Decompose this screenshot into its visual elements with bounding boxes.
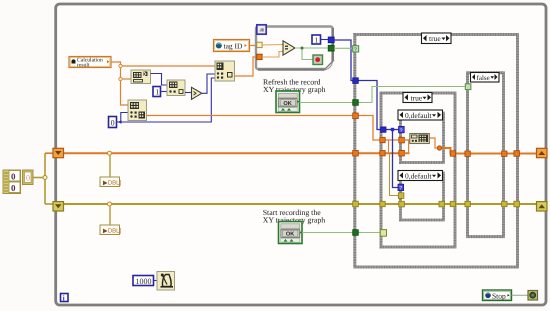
- control OK button refresh: [276, 91, 300, 113]
- tunnel express left string: [257, 42, 262, 47]
- tunnel express right blue: [328, 37, 334, 43]
- node const0 arrow: [118, 120, 122, 123]
- wire decrement to iconD: [202, 74, 215, 93]
- wire const0 paths: [117, 78, 216, 122]
- tunnel false right olive: [502, 201, 507, 206]
- svg-text:true: true: [429, 34, 441, 43]
- selector label 0default upper: [398, 110, 443, 120]
- wire OK refresh green: [300, 87, 466, 103]
- wire iconD to express tunnel: [235, 57, 258, 76]
- tunnel outer green start: [353, 230, 359, 236]
- tunnel c2 left olive: [399, 201, 405, 207]
- node branch dots calc: [119, 64, 122, 80]
- tunnel express left orange: [257, 54, 262, 59]
- svg-text:1000: 1000: [136, 277, 152, 286]
- express VI icon: [257, 25, 266, 34]
- svg-text:▶DBL]: ▶DBL]: [103, 227, 121, 234]
- svg-text:tag ID: tag ID: [224, 41, 244, 50]
- function Index Array C: [128, 100, 147, 121]
- tunnel false left olive: [465, 201, 470, 206]
- svg-text:OK: OK: [283, 101, 291, 107]
- svg-text:0: 0: [26, 174, 30, 183]
- tunnel true left orange array: [380, 151, 385, 156]
- selector label outer true: [422, 33, 452, 44]
- svg-text:OK: OK: [286, 232, 294, 238]
- iteration terminal i: [61, 294, 69, 303]
- wire DBL label stems: [109, 154, 111, 225]
- svg-text:0: 0: [11, 183, 16, 193]
- express VI frame: [256, 27, 336, 73]
- wire init cluster feed: [33, 153, 53, 204]
- wire const1 to iconB: [161, 91, 168, 93]
- node junction main wires: [43, 151, 112, 206]
- stop sign red button: [313, 55, 323, 65]
- case structure 0,default upper: [401, 113, 444, 163]
- wire shift register lower olive main: [63, 203, 537, 205]
- svg-text:?: ?: [400, 128, 403, 134]
- wire tag id to express: [250, 45, 258, 47]
- control Calculation result: [69, 57, 111, 69]
- tunnel true left green hollow: [380, 230, 386, 237]
- array constant 0 0: [3, 170, 21, 194]
- wire 1000 to wait: [154, 280, 158, 282]
- tunnel c2 left olive upper: [398, 193, 404, 199]
- loop condition terminal: [528, 291, 538, 301]
- node blue junction: [391, 128, 394, 131]
- node equal junction: [301, 47, 304, 50]
- svg-text:▶DBL]: ▶DBL]: [103, 179, 121, 186]
- selector label 0default lower: [398, 171, 443, 181]
- tunnel false left green: [465, 84, 471, 90]
- tunnel outer green refresh: [353, 100, 359, 106]
- case structure 0,default lower: [401, 173, 444, 220]
- text Refresh label: [263, 78, 326, 95]
- tunnel outer right orange: [514, 151, 520, 157]
- case structure true inner: [381, 93, 455, 247]
- selector label false: [471, 73, 500, 83]
- shift register right 1: [537, 148, 548, 157]
- tunnel false left orange: [465, 151, 470, 156]
- wire const1 to tunnel: [321, 39, 329, 41]
- case selector terminal c1 blue: [399, 126, 405, 133]
- wire stop to terminal: [512, 294, 529, 296]
- svg-text:0,default: 0,default: [405, 111, 432, 120]
- wire indexB to decrement: [185, 92, 192, 94]
- function decrement triangle: [192, 87, 202, 99]
- wire element inside: [262, 52, 283, 58]
- wire element out y115: [147, 116, 411, 141]
- tunnel outer blue: [353, 78, 359, 84]
- shift register left 1: [53, 148, 64, 157]
- wire OK start green: [302, 232, 381, 234]
- svg-text:0,default: 0,default: [405, 172, 432, 181]
- svg-text:1: 1: [315, 36, 319, 45]
- function replace subset c1 icon: [410, 134, 430, 144]
- svg-text:?: ?: [399, 186, 402, 192]
- tunnel outer orange element: [353, 113, 359, 119]
- svg-text:0: 0: [11, 172, 16, 182]
- wire shift register upper orange main: [63, 148, 537, 154]
- shift register left 2: [53, 202, 64, 211]
- svg-text:false: false: [477, 74, 490, 82]
- control Stop: [483, 290, 512, 301]
- wire inside c1: [404, 138, 440, 153]
- tunnel true left orange element: [380, 137, 385, 142]
- case structure false (inner right): [468, 73, 504, 237]
- text Start recording label: [263, 208, 326, 225]
- wire element into cases vertical: [388, 140, 390, 153]
- tunnel c1 left orange array: [399, 150, 405, 156]
- svg-text:1: 1: [155, 88, 159, 97]
- selector label inner true: [403, 93, 432, 103]
- constant 0 index: [109, 117, 117, 128]
- function Array Size: [131, 70, 151, 84]
- tunnel outer orange array: [353, 150, 359, 156]
- tunnel true right olive: [450, 201, 455, 206]
- tunnel true left olive: [380, 201, 385, 206]
- tunnel outer olive: [353, 201, 359, 207]
- scalar constant 0 cluster: [23, 170, 34, 185]
- function Equal?: [283, 41, 295, 55]
- tunnel c1 left orange element: [399, 137, 405, 143]
- svg-text:true: true: [411, 93, 423, 102]
- function Replace Array Subset D: [215, 61, 235, 81]
- wire green equal to case selector: [334, 47, 353, 49]
- tunnel c2 right olive: [439, 201, 445, 207]
- DBL label box 1: [100, 177, 121, 187]
- wire tagid inside: [262, 44, 283, 47]
- svg-text:Stop: Stop: [492, 291, 506, 300]
- wire calculation result out: [111, 62, 215, 105]
- function wait ms metronome: [157, 272, 175, 291]
- function Index Array B: [167, 80, 185, 96]
- tunnel false right orange: [502, 151, 507, 156]
- DBL label box 2: [100, 225, 121, 235]
- control OK button start: [279, 222, 303, 244]
- svg-text:i: i: [63, 294, 65, 302]
- tunnel true left blue: [381, 127, 386, 132]
- shift register right 2: [537, 202, 548, 211]
- case structure outer (true): [355, 35, 518, 268]
- constant 1 express: [312, 35, 321, 45]
- wire array size to index: [151, 74, 168, 86]
- tunnel express right green: [328, 45, 334, 51]
- case selector terminal c2 blue: [398, 184, 404, 191]
- wire equal out green: [295, 48, 329, 60]
- wire blue selector path: [334, 40, 399, 188]
- tunnel outer right olive: [514, 201, 520, 207]
- case selector terminal outer green: [353, 46, 359, 53]
- svg-text:result: result: [77, 63, 90, 69]
- wire olive inner vertical: [390, 154, 399, 196]
- node junction c1 out: [437, 146, 441, 150]
- constant 1: [153, 87, 161, 97]
- tunnel true right orange: [450, 151, 455, 156]
- constant 1000: [133, 276, 154, 286]
- svg-text:?: ?: [354, 47, 357, 53]
- svg-text:0: 0: [111, 119, 115, 128]
- control tag ID: [214, 40, 250, 52]
